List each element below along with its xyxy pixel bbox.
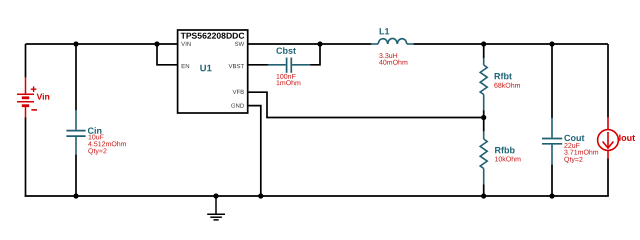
- svg-text:Qty=2: Qty=2: [564, 157, 583, 164]
- svg-text:Iout: Iout: [619, 133, 636, 143]
- capacitor Cout bottom wire: [551, 165, 553, 196]
- wire VBST to Cbst: [248, 64, 269, 66]
- capacitor Cin symbol: [66, 110, 85, 155]
- svg-text:4.512mOhm: 4.512mOhm: [88, 141, 127, 148]
- node junction GND pin bottom: [258, 193, 263, 198]
- inductor L1 symbol: [371, 38, 414, 44]
- svg-text:Cout: Cout: [564, 133, 585, 143]
- battery plus sign: [31, 86, 37, 92]
- resistor Rfbb symbol: [480, 131, 487, 185]
- svg-text:TPS562208DDC: TPS562208DDC: [181, 31, 245, 41]
- svg-text:Qty=2: Qty=2: [88, 148, 107, 155]
- battery minus sign: [31, 109, 37, 111]
- svg-text:U1: U1: [200, 62, 212, 73]
- node junction Cbst top: [317, 41, 322, 46]
- node junction Cout bottom: [549, 193, 554, 198]
- svg-text:VFB: VFB: [233, 90, 245, 96]
- wire bottom rail: [25, 195, 609, 197]
- wire top rail right segment (L1 to right corner): [414, 43, 609, 45]
- wire top rail middle segment (SW to L1): [248, 43, 372, 45]
- ground symbol: [207, 196, 225, 220]
- wire GND branch: [248, 106, 261, 196]
- svg-text:Rfbb: Rfbb: [494, 145, 515, 155]
- node junction ground tap: [213, 193, 218, 198]
- svg-text:SW: SW: [235, 42, 245, 48]
- capacitor Cout top wire: [551, 44, 553, 118]
- wire Rfbt top stub: [483, 44, 485, 59]
- svg-text:L1: L1: [379, 26, 390, 36]
- node junction Rfbt top (Vout): [481, 41, 486, 46]
- resistor Rfbt symbol: [480, 58, 487, 111]
- capacitor Cout symbol: [542, 118, 562, 166]
- node junction feedback VFB: [481, 115, 486, 120]
- svg-text:EN: EN: [181, 64, 189, 70]
- capacitor Cin bottom wire: [75, 155, 77, 196]
- svg-text:1mOhm: 1mOhm: [276, 80, 301, 87]
- svg-text:GND: GND: [231, 104, 245, 110]
- wire Rfbb top stub: [483, 118, 485, 132]
- wire Rfbb bottom stub: [483, 185, 485, 197]
- node junction EN tap: [154, 41, 159, 46]
- wire Cbst to top rail: [310, 44, 320, 65]
- wire VFB branch: [248, 92, 484, 117]
- capacitor Cbst symbol: [268, 58, 311, 73]
- IC U1 TPS562208DDC body: [178, 30, 248, 113]
- node junction Cin top: [73, 41, 78, 46]
- current source Iout symbol: [598, 117, 619, 159]
- svg-text:Cbst: Cbst: [276, 46, 296, 56]
- node junction Cin bottom: [73, 193, 78, 198]
- wire EN branch: [157, 44, 178, 65]
- wire right vertical above Iout: [607, 44, 609, 118]
- svg-text:Vin: Vin: [36, 92, 49, 102]
- wire right vertical below Iout: [607, 158, 609, 196]
- battery V1 Vin symbol: [17, 77, 34, 118]
- node junction Rfbb bottom: [481, 193, 486, 198]
- svg-text:VIN: VIN: [181, 42, 191, 48]
- node junction Cout top: [549, 41, 554, 46]
- wire Rfbt bottom stub: [483, 110, 485, 117]
- wire left vertical below battery: [25, 117, 27, 197]
- svg-text:10kOhm: 10kOhm: [494, 156, 521, 163]
- svg-text:3.71mOhm: 3.71mOhm: [564, 149, 599, 156]
- wire left vertical above battery: [25, 44, 27, 78]
- svg-text:Rfbt: Rfbt: [494, 71, 512, 81]
- capacitor Cin branch top wire: [75, 44, 77, 111]
- wire top rail left segment: [26, 43, 178, 45]
- svg-text:68kOhm: 68kOhm: [494, 83, 521, 90]
- svg-text:VBST: VBST: [229, 64, 245, 70]
- svg-text:40mOhm: 40mOhm: [379, 60, 408, 67]
